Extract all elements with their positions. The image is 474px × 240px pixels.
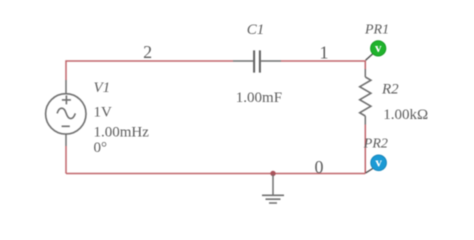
wire: top horizontal right segment (net 1) [281, 61, 365, 69]
probe PR2 body [371, 155, 387, 171]
svg-text:PR2: PR2 [363, 136, 388, 151]
svg-text:1.00mF: 1.00mF [236, 90, 282, 106]
resistor R2 zigzag [360, 77, 371, 116]
ground stem [272, 175, 274, 196]
svg-text:R2: R2 [381, 81, 399, 97]
wire: top-left vertical + top horizontal left segment (net 2) [66, 61, 233, 80]
svg-text:v: v [375, 155, 382, 170]
svg-text:2: 2 [143, 42, 152, 62]
svg-text:0°: 0° [94, 140, 108, 156]
svg-text:1: 1 [320, 43, 329, 63]
svg-text:C1: C1 [247, 22, 265, 38]
probe PR1 leader [366, 54, 373, 61]
ground bars [262, 195, 284, 203]
svg-text:0: 0 [315, 157, 324, 177]
wire: right vertical below resistor [364, 125, 366, 174]
svg-text:PR1: PR1 [364, 23, 389, 38]
svg-text:V1: V1 [94, 80, 111, 96]
voltage source V1 body [46, 94, 86, 134]
voltage source V1 lead bottom [65, 134, 67, 146]
resistor R2 lead bottom [364, 116, 366, 125]
voltage source V1 lead top [65, 80, 67, 94]
capacitor C1 plates [254, 50, 260, 72]
probe PR1 body [371, 41, 386, 56]
capacitor C1 lead left [233, 60, 253, 62]
svg-text:1.00kΩ: 1.00kΩ [383, 107, 428, 123]
wire: bottom horizontal (net 0) [66, 173, 365, 175]
svg-text:1V: 1V [94, 105, 113, 121]
resistor R2 lead top [364, 69, 366, 77]
junction dot node 0 [270, 171, 275, 176]
svg-text:v: v [375, 40, 382, 55]
wire: bottom-left vertical [65, 146, 67, 174]
probe PR2 leader [366, 168, 374, 173]
capacitor C1 lead right [261, 60, 281, 62]
svg-text:1.00mHz: 1.00mHz [94, 125, 150, 141]
